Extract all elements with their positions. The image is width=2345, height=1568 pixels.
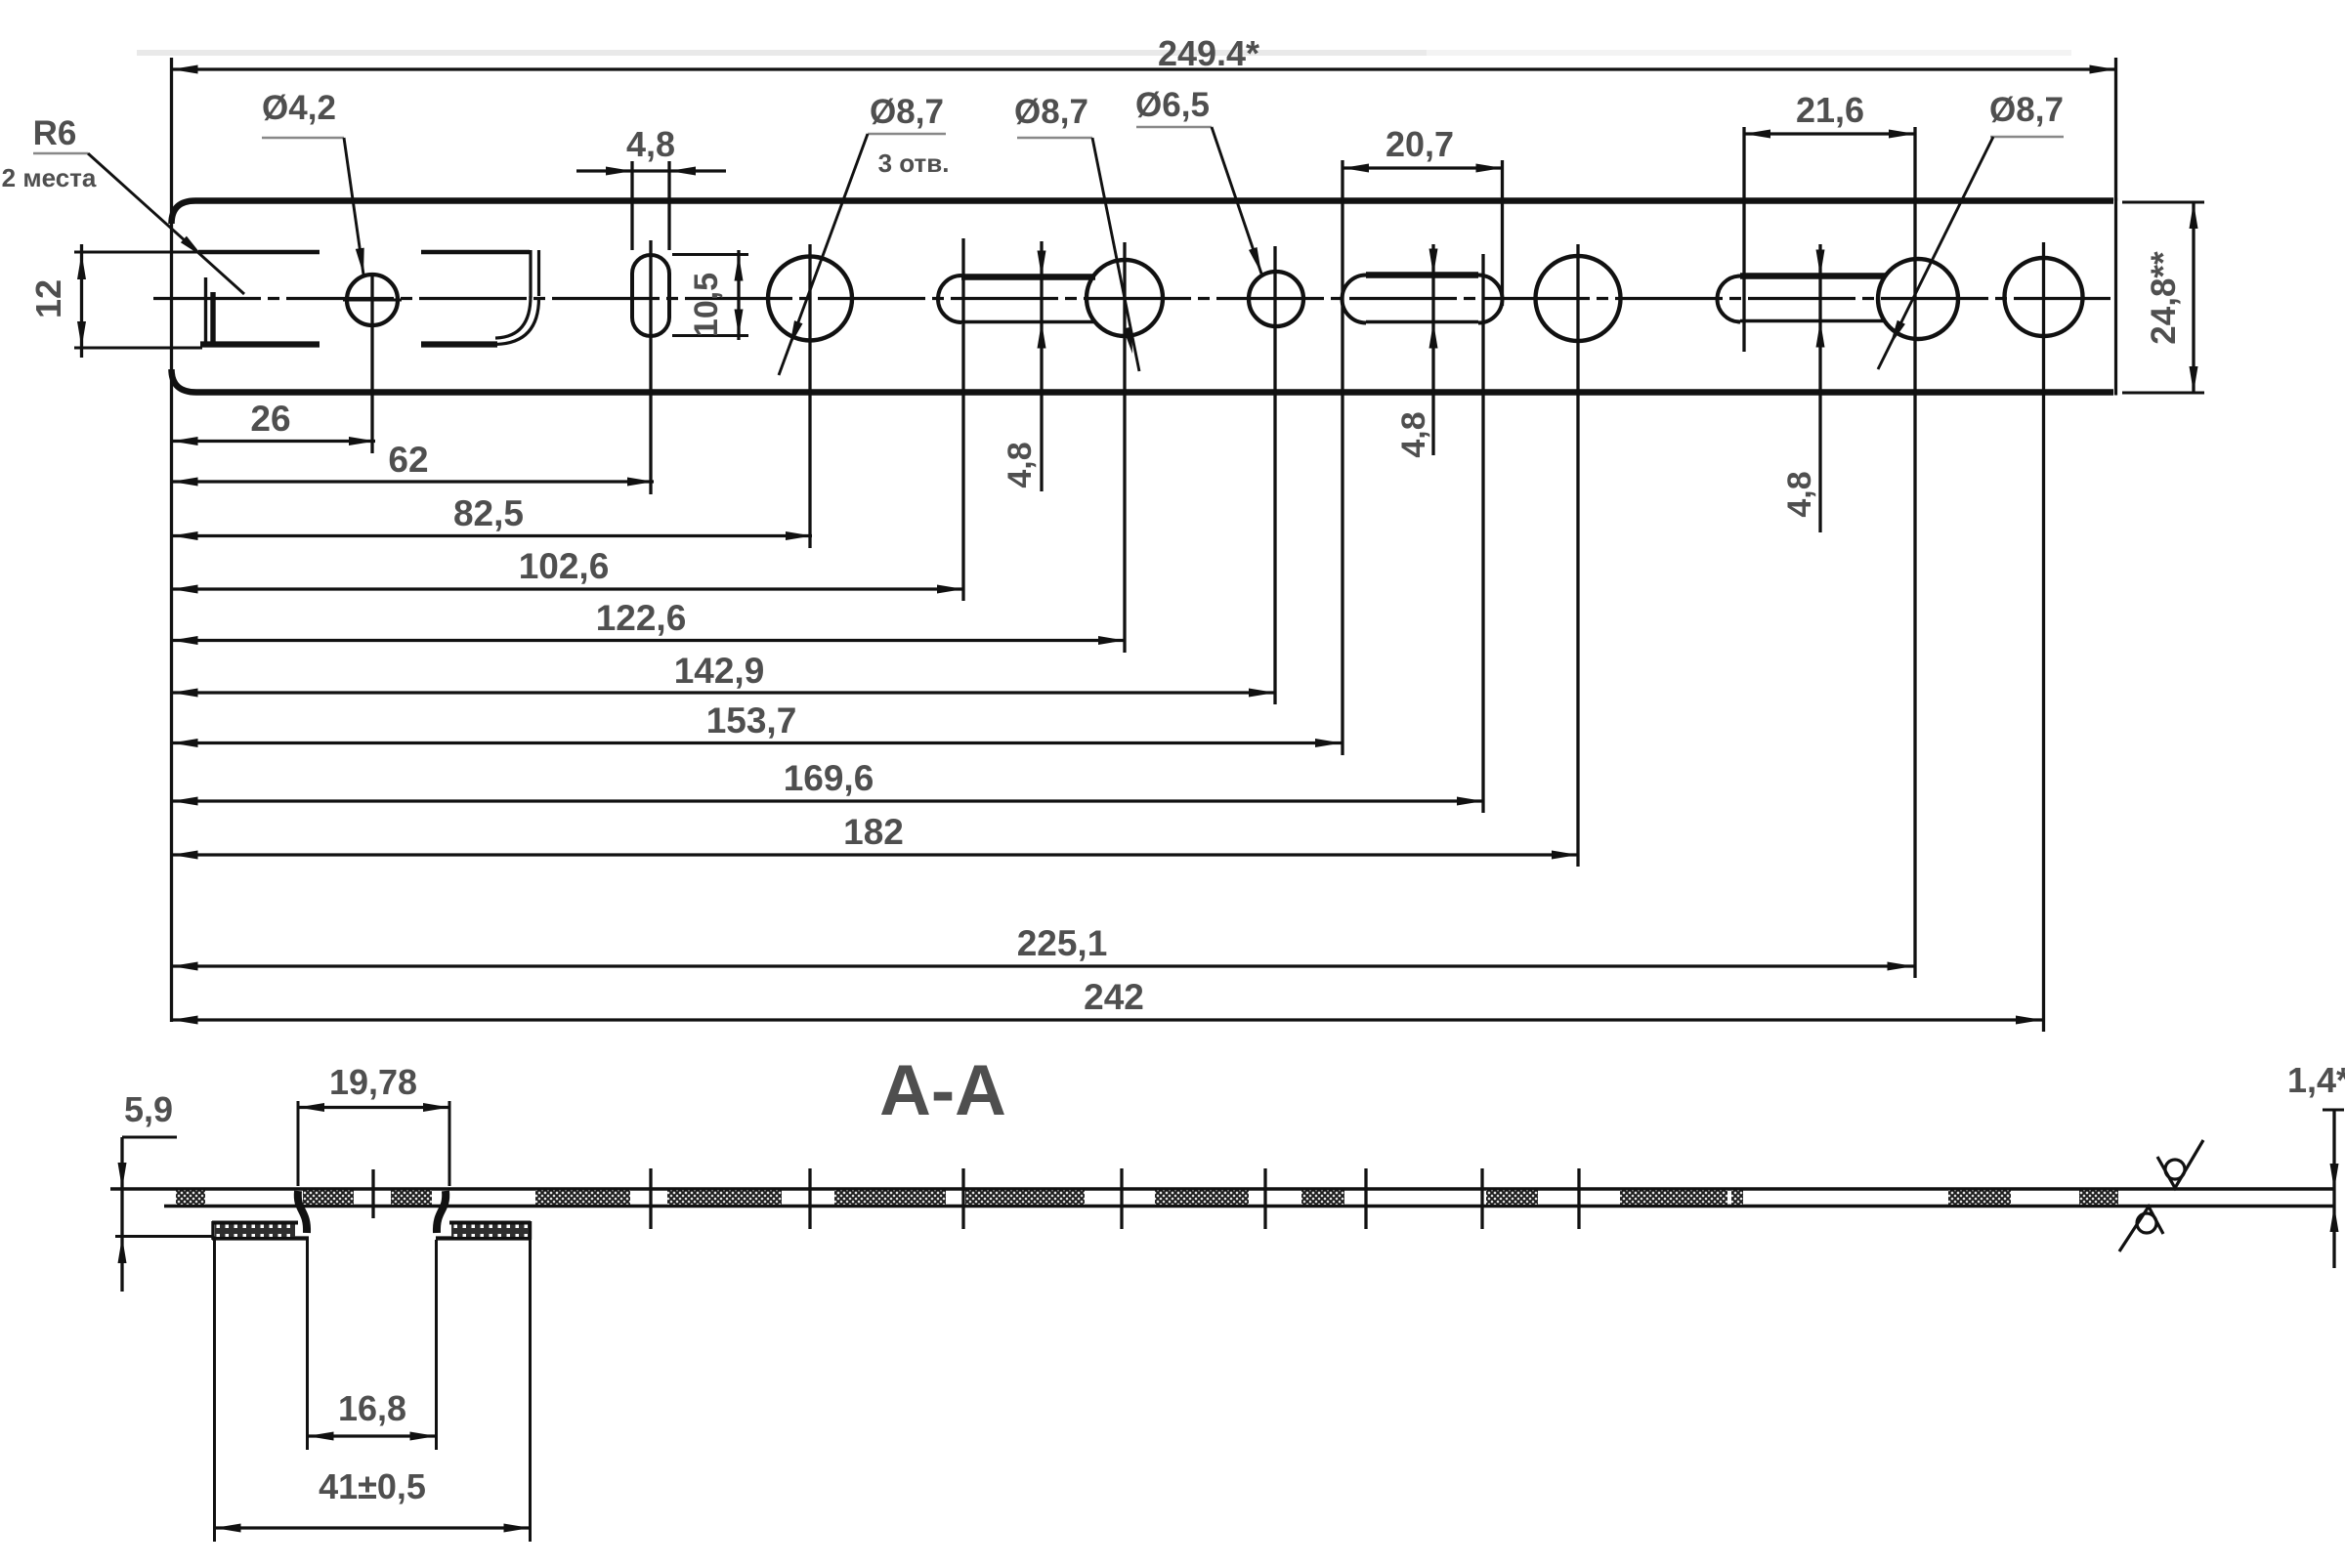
svg-text:10,5: 10,5: [688, 273, 725, 337]
svg-text:3 отв.: 3 отв.: [878, 148, 950, 178]
svg-text:1,4*: 1,4*: [2287, 1060, 2345, 1100]
svg-text:4,8: 4,8: [1395, 411, 1432, 457]
svg-text:24,8**: 24,8**: [2145, 251, 2183, 345]
svg-text:82,5: 82,5: [453, 493, 524, 533]
svg-text:142,9: 142,9: [674, 651, 765, 691]
svg-text:169,6: 169,6: [784, 758, 874, 798]
svg-text:Ø6,5: Ø6,5: [1135, 86, 1210, 124]
svg-text:21,6: 21,6: [1796, 90, 1864, 130]
svg-text:242: 242: [1084, 977, 1144, 1017]
svg-text:16,8: 16,8: [338, 1388, 406, 1428]
svg-text:19,78: 19,78: [329, 1062, 417, 1102]
svg-text:Ø8,7: Ø8,7: [1014, 93, 1088, 131]
svg-text:R6: R6: [33, 114, 77, 152]
svg-text:249.4*: 249.4*: [1158, 33, 1259, 73]
svg-text:122,6: 122,6: [596, 598, 687, 638]
svg-text:26: 26: [250, 399, 290, 439]
svg-text:4,8: 4,8: [1002, 442, 1039, 487]
svg-text:102,6: 102,6: [519, 546, 610, 586]
svg-text:182: 182: [843, 812, 904, 852]
svg-text:A-A: A-A: [879, 1051, 1006, 1130]
svg-text:20,7: 20,7: [1386, 124, 1454, 164]
svg-text:62: 62: [388, 440, 428, 480]
svg-text:4,8: 4,8: [626, 124, 675, 164]
svg-text:2 места: 2 места: [2, 163, 97, 192]
svg-text:Ø8,7: Ø8,7: [1989, 91, 2064, 129]
svg-text:153,7: 153,7: [706, 700, 797, 741]
svg-text:Ø8,7: Ø8,7: [870, 93, 944, 131]
svg-text:5,9: 5,9: [124, 1089, 173, 1129]
svg-text:4,8: 4,8: [1781, 471, 1818, 517]
svg-text:Ø4,2: Ø4,2: [262, 89, 336, 127]
svg-text:41±0,5: 41±0,5: [319, 1466, 426, 1506]
svg-text:12: 12: [28, 279, 68, 318]
svg-text:225,1: 225,1: [1017, 923, 1108, 963]
